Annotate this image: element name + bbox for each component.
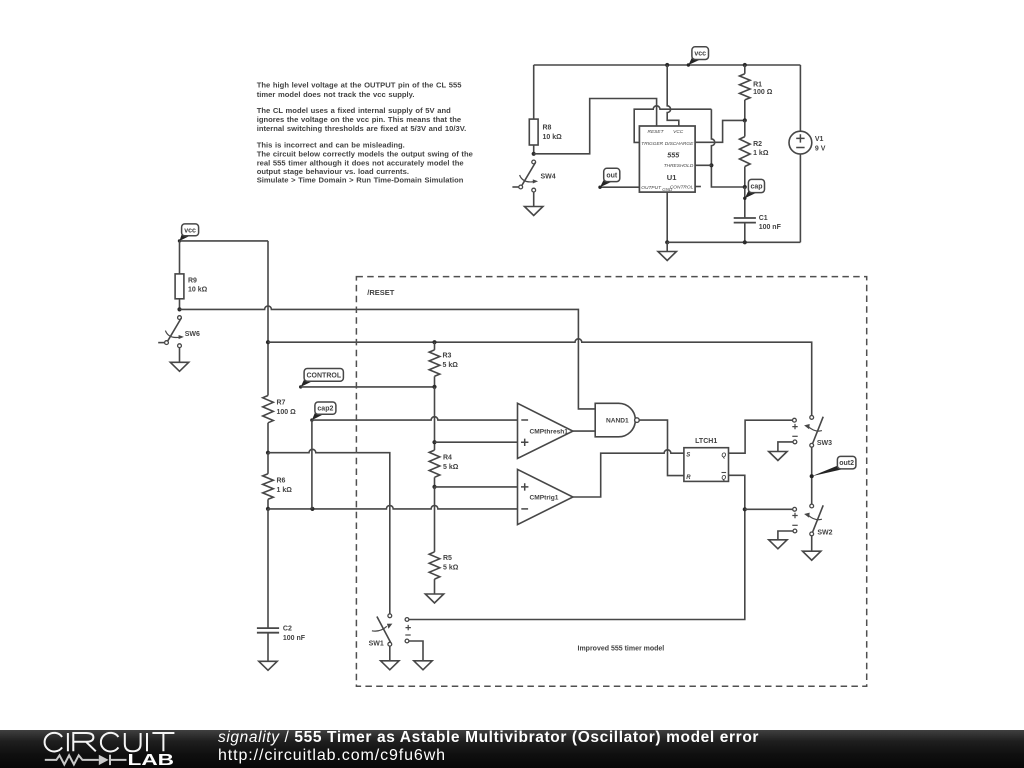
svg-text:out2: out2 bbox=[839, 460, 854, 467]
wire SW3 to out2 node to SW2 bbox=[811, 447, 813, 504]
capacitor C1 bbox=[734, 215, 782, 231]
wire C1 to bottom rail bbox=[744, 223, 746, 243]
resistor R9 bbox=[175, 274, 208, 310]
svg-text:R9: R9 bbox=[188, 277, 197, 284]
switch SW2 bbox=[804, 504, 833, 536]
svg-text:5 kΩ: 5 kΩ bbox=[443, 362, 459, 369]
node Qbar / SW2 + junction bbox=[743, 507, 747, 511]
op-amp comparator CMPthresh1 bbox=[518, 403, 573, 458]
svg-text:C2: C2 bbox=[283, 626, 292, 633]
T bbox=[152, 733, 174, 751]
capacitor C2 bbox=[257, 626, 306, 642]
node THRESHOLD junction bbox=[709, 163, 713, 167]
resistor R6 bbox=[263, 453, 293, 509]
wire vcc down to R9 bbox=[179, 241, 181, 274]
wire SW2 - control to ground bbox=[778, 531, 793, 540]
svg-text:The CL model uses a fixed inte: The CL model uses a fixed internal suppl… bbox=[257, 106, 451, 115]
svg-text:SW6: SW6 bbox=[185, 331, 200, 338]
node trig + tap bbox=[432, 485, 436, 489]
svg-text:V1: V1 bbox=[815, 136, 824, 143]
node vcc branch to SW3 rail bbox=[266, 340, 270, 344]
svg-text:100 nF: 100 nF bbox=[283, 635, 306, 642]
wire SW3 - control to ground bbox=[778, 442, 793, 452]
node cap junction bbox=[743, 185, 747, 189]
svg-text:vcc: vcc bbox=[184, 227, 196, 234]
wire cap2 to CMPthresh1 - input bbox=[312, 417, 518, 420]
wire trigger sense net to SW1 bbox=[268, 449, 390, 614]
wire trig + tap to CMPtrig1 bbox=[435, 486, 518, 488]
CircuitLab logo bbox=[0, 730, 220, 768]
svg-text:R5: R5 bbox=[443, 555, 452, 562]
node vcc / R1 branch junction bbox=[743, 63, 747, 67]
R bbox=[73, 733, 96, 751]
svg-text:cap: cap bbox=[750, 183, 762, 190]
svg-text:The high level voltage at the: The high level voltage at the OUTPUT pin… bbox=[257, 80, 463, 89]
net flag out bbox=[598, 168, 620, 189]
switch SW3 bbox=[804, 416, 832, 448]
logic gate NAND1 bbox=[595, 403, 639, 437]
C bbox=[45, 733, 63, 752]
wire TRIGGER net: pin up over to cap vertical bbox=[634, 106, 711, 143]
svg-text:CMPthresh1: CMPthresh1 bbox=[530, 429, 569, 436]
resistor + diode wire glyph bbox=[45, 755, 127, 765]
ground for SW2 - control bbox=[769, 540, 787, 549]
wire cap2 vertical bbox=[311, 420, 313, 509]
svg-text:R8: R8 bbox=[543, 125, 552, 132]
svg-text:9 V: 9 V bbox=[815, 145, 826, 152]
svg-text:Q: Q bbox=[721, 475, 726, 481]
svg-text:vcc: vcc bbox=[694, 51, 706, 58]
voltage source V1 bbox=[789, 65, 826, 242]
node thresh + tap bbox=[432, 440, 436, 444]
node vcc / U1 VCC branch junction bbox=[665, 63, 669, 67]
svg-text:SW1: SW1 bbox=[369, 641, 384, 648]
wire thresh + tap to CMPthresh1 bbox=[435, 441, 518, 443]
wire vcc corner to right bbox=[180, 240, 269, 242]
net flag vcc (left) bbox=[178, 224, 199, 243]
svg-text:SW4: SW4 bbox=[541, 173, 556, 180]
wire gnd stem bbox=[666, 242, 668, 251]
op-amp U1 555 timer box bbox=[639, 126, 695, 192]
svg-text:This is incorrect and can be m: This is incorrect and can be misleading. bbox=[257, 141, 405, 150]
wire THRESHOLD pin bbox=[695, 164, 711, 166]
wire CMPtrig1 output to LTCH1 S input bbox=[573, 450, 684, 497]
wire vcc vertical down to R7 bbox=[267, 241, 269, 396]
node R8/SW4/RESET junction bbox=[532, 152, 536, 156]
wire R4 to R5 bbox=[434, 487, 436, 552]
svg-text:LAB: LAB bbox=[128, 752, 175, 768]
svg-text:GND: GND bbox=[662, 187, 673, 192]
wire NAND1 output to LTCH1 R input bbox=[639, 420, 684, 476]
wire C2 feed bbox=[267, 509, 269, 628]
svg-text:CONTROL: CONTROL bbox=[670, 185, 694, 191]
svg-text:Improved 555 timer model: Improved 555 timer model bbox=[578, 646, 665, 653]
wire OUTPUT pin to out flag bbox=[600, 186, 639, 188]
resistor R5 bbox=[429, 552, 459, 594]
ground below C2 bbox=[259, 661, 277, 670]
I bbox=[146, 733, 148, 751]
wire RESET net: R8 junction to U1 RESET pin bbox=[534, 99, 657, 154]
resistor R3 bbox=[429, 342, 458, 387]
svg-text:SW3: SW3 bbox=[817, 440, 832, 447]
svg-text:555: 555 bbox=[667, 151, 680, 160]
switch SW4 bbox=[512, 160, 555, 192]
wire vcc rail to SW3 bbox=[268, 339, 812, 416]
svg-text:10 kΩ: 10 kΩ bbox=[543, 134, 563, 141]
svg-text:S: S bbox=[686, 453, 690, 459]
wire top rail to R8 bbox=[533, 65, 535, 119]
wire vcc top rail bbox=[534, 64, 801, 66]
svg-text:RESET: RESET bbox=[648, 129, 665, 135]
svg-text:100 nF: 100 nF bbox=[759, 224, 782, 231]
ground for SW3 - control bbox=[769, 452, 787, 461]
svg-text:10 kΩ: 10 kΩ bbox=[188, 287, 208, 294]
resistor R7 bbox=[263, 396, 296, 453]
node R1/R2/DISCHARGE junction bbox=[743, 118, 747, 122]
switch SW6 bbox=[158, 316, 200, 348]
svg-text:C1: C1 bbox=[759, 215, 768, 222]
svg-text:R6: R6 bbox=[277, 478, 286, 485]
resistor R4 bbox=[429, 450, 459, 487]
node R7/R6 junction bbox=[266, 451, 270, 455]
resistor R8 bbox=[529, 119, 562, 154]
net flag vcc (top) bbox=[687, 47, 709, 67]
node R3/CONTROL junction bbox=[432, 385, 436, 389]
wire SW1 - control to ground bbox=[409, 641, 423, 661]
svg-text:R: R bbox=[686, 475, 691, 481]
wire LTCH1 Q to SW3 + control bbox=[729, 420, 793, 453]
svg-text:SW2: SW2 bbox=[817, 529, 832, 536]
wire CONTROL net to R3 bottom bbox=[301, 386, 435, 388]
wire U1 GND pin down bbox=[666, 192, 668, 242]
node cap2 vertical junction bbox=[310, 507, 314, 511]
annotation text block bbox=[257, 80, 473, 184]
wire R2 to C1 bbox=[744, 187, 746, 218]
node out2 bbox=[810, 474, 814, 478]
node R9/SW6 junction bbox=[177, 307, 181, 311]
svg-text:/RESET: /RESET bbox=[367, 288, 395, 297]
net flag out2 bbox=[810, 456, 856, 478]
wire SW2 + control feed bbox=[745, 508, 793, 510]
ground below SW6 bbox=[170, 362, 188, 371]
node C1/bottom rail junction bbox=[743, 240, 747, 244]
svg-text:NAND1: NAND1 bbox=[606, 418, 629, 425]
ground below SW4 bbox=[525, 207, 543, 216]
wire U1 VCC pin from top rail bbox=[667, 65, 679, 126]
node gnd junction bbox=[665, 240, 669, 244]
C bbox=[101, 733, 119, 752]
wire bottom rail bbox=[667, 241, 800, 243]
svg-text:timer model does not track the: timer model does not track the vcc suppl… bbox=[257, 90, 415, 99]
svg-text:1 kΩ: 1 kΩ bbox=[277, 487, 293, 494]
svg-text:R7: R7 bbox=[277, 400, 286, 407]
net flag cap bbox=[743, 179, 764, 200]
U bbox=[125, 733, 141, 751]
op-amp comparator CMPtrig1 bbox=[518, 469, 573, 524]
wire cap net vertical down to CONTROL row bbox=[711, 109, 744, 187]
svg-text:R3: R3 bbox=[443, 353, 452, 360]
svg-text:1 kΩ: 1 kΩ bbox=[753, 150, 769, 157]
svg-text:out: out bbox=[606, 172, 618, 179]
svg-text:5 kΩ: 5 kΩ bbox=[443, 564, 459, 571]
wire divider chain R3-R4 bbox=[434, 387, 436, 450]
wire C2 to ground bbox=[267, 633, 269, 662]
svg-text:OUTPUT: OUTPUT bbox=[641, 185, 662, 191]
switch SW1 bbox=[369, 614, 393, 648]
ground for SW1 - control bbox=[414, 661, 432, 670]
svg-text:R1: R1 bbox=[753, 81, 762, 88]
svg-text:TRIGGER: TRIGGER bbox=[641, 141, 663, 147]
svg-text:Simulate > Time Domain > Run T: Simulate > Time Domain > Run Time-Domain… bbox=[257, 175, 464, 184]
ground below SW2 bbox=[803, 551, 821, 560]
wire LTCH1 Qbar vertical down bbox=[409, 475, 745, 619]
wire cap2 net bottom run to CMPtrig1 - input bbox=[268, 505, 518, 508]
svg-text:100 Ω: 100 Ω bbox=[753, 89, 773, 96]
svg-text:DISCHARGE: DISCHARGE bbox=[665, 141, 694, 147]
wire DISCHARGE pin to R1/R2 junction bbox=[695, 120, 745, 142]
wire SW6 to ground bbox=[179, 348, 181, 363]
node R6 bottom junction bbox=[266, 507, 270, 511]
ground below SW1 bbox=[381, 661, 399, 670]
wire /RESET net long run to NAND1 input bbox=[180, 306, 596, 409]
resistor R2 bbox=[740, 120, 769, 187]
net flag cap2 bbox=[310, 402, 336, 422]
svg-text:internal switching thresholds: internal switching thresholds are fixed … bbox=[257, 124, 467, 133]
wire SW4 to ground bbox=[533, 192, 535, 206]
svg-text:ignores the voltage on the vcc: ignores the voltage on the vcc pin. This… bbox=[257, 115, 461, 124]
flip-flop latch LTCH1 bbox=[684, 438, 729, 481]
svg-text:R2: R2 bbox=[753, 141, 762, 148]
svg-text:R4: R4 bbox=[443, 455, 452, 462]
svg-text:cap2: cap2 bbox=[317, 406, 333, 413]
svg-text:CMPtrig1: CMPtrig1 bbox=[530, 495, 559, 502]
I bbox=[67, 733, 69, 751]
svg-text:U1: U1 bbox=[667, 173, 677, 182]
svg-text:VCC: VCC bbox=[673, 129, 684, 135]
wire SW2 bottom to ground bbox=[811, 536, 813, 551]
svg-text:The circuit below correctly mo: The circuit below correctly models the o… bbox=[257, 150, 473, 159]
svg-text:THRESHOLD: THRESHOLD bbox=[664, 163, 694, 169]
svg-text:100 Ω: 100 Ω bbox=[277, 409, 297, 416]
resistor R1 bbox=[740, 65, 773, 120]
svg-text:5 kΩ: 5 kΩ bbox=[443, 464, 459, 471]
net flag CONTROL bbox=[299, 369, 343, 389]
ground below R5 bbox=[425, 594, 443, 603]
ground below U1 bbox=[658, 252, 676, 261]
svg-text:CONTROL: CONTROL bbox=[306, 372, 341, 379]
wire SW1 bottom to ground bbox=[389, 646, 391, 661]
improved 555 model dashed boundary box bbox=[356, 277, 866, 687]
svg-text:Q: Q bbox=[721, 453, 726, 459]
wire CMPthresh1 output to NAND1 bbox=[573, 430, 595, 432]
svg-text:LTCH1: LTCH1 bbox=[695, 438, 717, 445]
node R3 top junction bbox=[432, 340, 436, 344]
wire CONTROL pin stub bbox=[695, 186, 701, 188]
